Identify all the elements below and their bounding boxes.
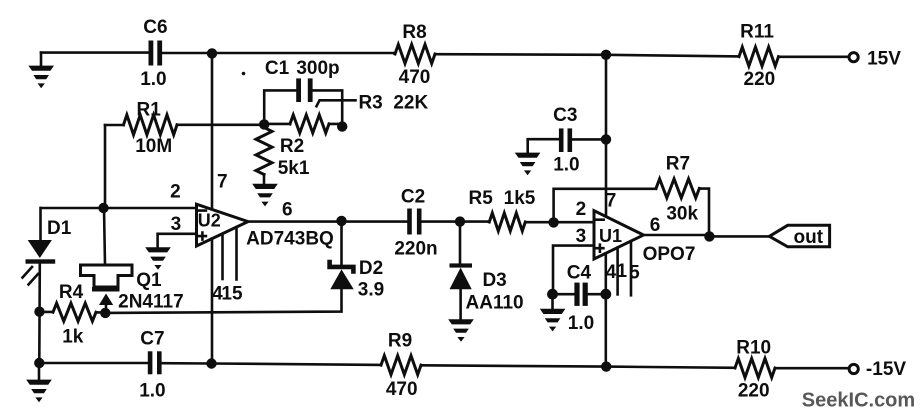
pin U2 pin 5 stub xyxy=(235,227,238,279)
svg-text:C6: C6 xyxy=(143,17,167,38)
node junction D1/R4 xyxy=(34,307,44,317)
svg-text:220: 220 xyxy=(738,381,770,402)
transistor Q1 (2N4117) xyxy=(81,208,133,312)
ground (C3) xyxy=(515,153,541,176)
capacitor C7 xyxy=(148,351,162,374)
capacitor C4 xyxy=(553,283,606,306)
resistor R11 xyxy=(739,47,779,66)
svg-text:1k5: 1k5 xyxy=(504,188,536,209)
svg-text:470: 470 xyxy=(399,67,431,88)
stray ink dot xyxy=(242,72,246,76)
svg-text:R5: R5 xyxy=(469,188,494,209)
svg-text:1.0: 1.0 xyxy=(140,69,166,90)
wire bottom rail left segment xyxy=(39,362,147,365)
wire U1 output xyxy=(644,235,770,236)
wire R1 left vertical xyxy=(104,125,107,208)
node junction U1 output / R7 xyxy=(704,231,714,241)
svg-text:220: 220 xyxy=(744,69,776,90)
svg-text:30k: 30k xyxy=(666,203,698,224)
svg-text:R1: R1 xyxy=(137,99,162,120)
wire bottom rail R9 to R10 xyxy=(421,365,735,368)
wire V+ vertical x212 (to U2 pin 7) xyxy=(211,53,214,209)
resistor R9 xyxy=(381,356,421,375)
wire U2 pin 4 to negative rail xyxy=(211,239,214,364)
resistor R7 feedback loop xyxy=(554,179,709,237)
svg-text:7: 7 xyxy=(217,171,228,192)
wire input node to U2 pin 2 xyxy=(41,207,197,210)
zener diode D2 xyxy=(327,221,355,289)
ground (bottom-left) xyxy=(26,363,52,402)
svg-text:10M: 10M xyxy=(135,136,172,157)
svg-text:D1: D1 xyxy=(47,218,72,239)
svg-text:4: 4 xyxy=(606,262,617,283)
pin U2 pin 1 stub xyxy=(221,234,224,279)
wire C2 to R5 xyxy=(422,220,490,223)
svg-text:R3: R3 xyxy=(358,93,382,114)
svg-text:U2: U2 xyxy=(198,210,221,230)
out flag xyxy=(769,225,829,248)
wire R11 to +15V terminal xyxy=(779,55,849,58)
svg-text:C1: C1 xyxy=(265,58,290,79)
svg-text:1.0: 1.0 xyxy=(553,155,579,176)
ground (D3) xyxy=(448,319,474,342)
svg-text:R2: R2 xyxy=(280,136,304,157)
node junction R3/C1 right xyxy=(337,121,347,131)
svg-text:470: 470 xyxy=(386,379,418,400)
resistor R4 xyxy=(40,303,106,321)
node junction U2 output / D2 xyxy=(336,216,346,226)
svg-text:5: 5 xyxy=(232,284,243,305)
svg-text:6: 6 xyxy=(282,199,293,220)
svg-text:1.0: 1.0 xyxy=(568,313,594,334)
resistor R3 xyxy=(264,115,342,133)
svg-text:AA110: AA110 xyxy=(466,293,524,314)
node junction C2/R5/D3 xyxy=(455,216,465,226)
svg-text:5: 5 xyxy=(629,263,640,284)
svg-text:3: 3 xyxy=(576,226,587,247)
svg-text:300p: 300p xyxy=(296,58,339,79)
svg-text:U1: U1 xyxy=(599,226,622,246)
wire U1 pin 3 xyxy=(553,246,594,295)
wire U2 output xyxy=(248,220,407,223)
node junction bottom rail left xyxy=(34,358,44,368)
svg-text:D2: D2 xyxy=(359,258,383,279)
ground (U1 pin3 / C4) xyxy=(540,294,566,331)
node junction R1/R2/R3/C1 xyxy=(259,119,269,129)
resistor R8 xyxy=(395,45,435,64)
wire bottom rail C7 to R9 xyxy=(162,363,381,365)
node junction C3 / V+ line xyxy=(601,134,611,144)
svg-text:15V: 15V xyxy=(867,48,901,69)
svg-text:R4: R4 xyxy=(59,282,84,303)
svg-text:SeekIC.com: SeekIC.com xyxy=(802,390,915,412)
svg-text:out: out xyxy=(794,227,824,248)
wire top rail C6 to R8 xyxy=(162,52,395,55)
svg-text:R10: R10 xyxy=(736,338,771,359)
wire V+ vertical x606 (to U1 pin 7) xyxy=(605,55,608,217)
capacitor C2 xyxy=(407,209,421,235)
resistor R1 xyxy=(105,115,264,135)
svg-text:6: 6 xyxy=(650,215,661,236)
pin U1 pin 1 stub xyxy=(616,248,619,295)
resistor R5 xyxy=(489,213,525,231)
svg-text:-15V: -15V xyxy=(866,359,906,380)
op-amp U1 xyxy=(594,211,644,259)
svg-text:R11: R11 xyxy=(740,22,774,43)
node junction bottom rail x606 xyxy=(601,361,611,371)
svg-text:22K: 22K xyxy=(393,93,428,114)
node junction U1 pin3/C4/ground xyxy=(547,289,558,300)
svg-text:C7: C7 xyxy=(140,328,164,349)
wire U2 pin 3 xyxy=(158,234,197,248)
svg-text:R9: R9 xyxy=(388,330,412,351)
terminal -15V xyxy=(849,364,858,373)
svg-text:2: 2 xyxy=(576,199,587,220)
resistor R2 (vertical) xyxy=(256,128,272,185)
svg-text:C3: C3 xyxy=(553,105,577,126)
node junction bottom rail x211 xyxy=(206,358,216,368)
node junction top rail x606 xyxy=(601,50,611,60)
photodiode D1 xyxy=(23,208,56,363)
wire R10 to -15V terminal xyxy=(775,367,849,370)
capacitor C6 xyxy=(149,41,163,66)
terminal +15V xyxy=(849,53,858,62)
svg-text:3.9: 3.9 xyxy=(358,280,384,301)
svg-text:R8: R8 xyxy=(402,22,426,43)
node junction R5/R7/U1 pin2 xyxy=(548,217,558,227)
wire top rail R8 to R11 xyxy=(435,54,739,56)
op-amp U2 xyxy=(197,204,249,246)
svg-text:AD743BQ: AD743BQ xyxy=(246,228,334,249)
ground (R2) xyxy=(252,184,278,207)
wire top rail left segment xyxy=(41,51,148,54)
svg-text:7: 7 xyxy=(606,190,617,211)
node junction input xyxy=(98,203,108,213)
node junction R4/Q1 gate/D2 return xyxy=(100,308,110,318)
pin U1 pin 5 stub xyxy=(630,241,633,295)
svg-text:C4: C4 xyxy=(567,263,592,284)
node junction top rail x212 xyxy=(207,48,217,58)
svg-text:3: 3 xyxy=(171,214,182,235)
svg-text:D3: D3 xyxy=(482,270,506,291)
svg-text:R7: R7 xyxy=(666,154,690,175)
capacitor C3 xyxy=(528,128,606,152)
svg-text:1.0: 1.0 xyxy=(139,380,165,401)
capacitor C1 (loop above R3) xyxy=(264,78,342,126)
svg-text:2: 2 xyxy=(170,181,181,202)
node junction C4 / V- line xyxy=(600,289,611,300)
svg-text:Q1: Q1 xyxy=(136,270,162,291)
resistor R10 xyxy=(735,359,775,378)
svg-text:2N4117: 2N4117 xyxy=(118,291,184,312)
wire U1 pin 4 to negative rail xyxy=(604,253,607,366)
svg-text:5k1: 5k1 xyxy=(278,158,310,179)
svg-text:OPO7: OPO7 xyxy=(643,244,696,265)
svg-text:C2: C2 xyxy=(401,187,425,208)
callout line to R3 label xyxy=(317,100,356,106)
svg-text:1k: 1k xyxy=(62,327,84,348)
svg-text:220n: 220n xyxy=(394,238,437,259)
svg-text:1: 1 xyxy=(221,284,232,305)
ground (top-left rail termination) xyxy=(28,53,54,89)
wire R5 to U1 pin 2 xyxy=(525,221,594,224)
svg-text:1: 1 xyxy=(617,261,628,282)
diode D3 xyxy=(450,222,473,320)
ground (U2 pin 3) xyxy=(145,247,171,270)
wire feedback return (Q1/R4 node to D2 anode) xyxy=(105,289,341,313)
